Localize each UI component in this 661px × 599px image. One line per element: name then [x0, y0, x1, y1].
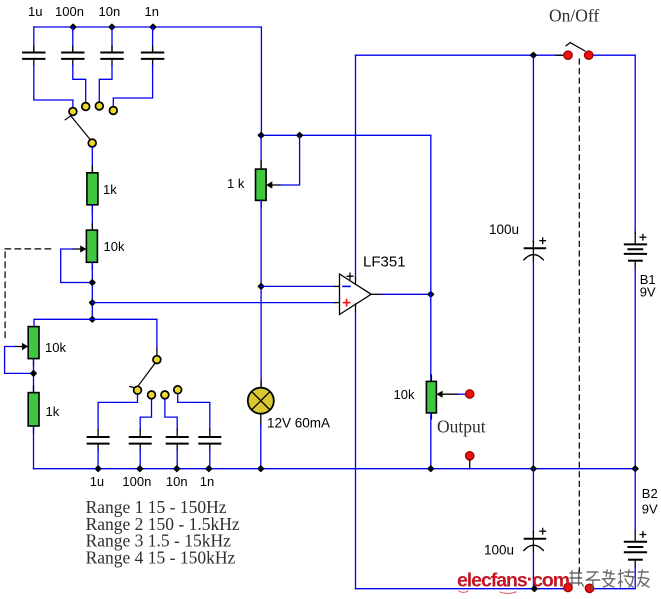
switch S1 contact 2 — [82, 103, 90, 111]
capacitor C 100n top lead — [72, 27, 74, 53]
switch S2 pivot — [153, 356, 161, 364]
wire bottom supply rail left part — [356, 588, 564, 590]
svg-text:1k: 1k — [46, 404, 60, 419]
capacitor C 1n (bottom group) — [199, 430, 220, 451]
capacitor C 1u (bottom group) — [88, 430, 109, 451]
svg-text:100n: 100n — [55, 4, 84, 19]
wire C10n bottom lead — [176, 449, 178, 469]
wire P4 bottom to rail — [430, 413, 432, 469]
wire lower branch horizontal — [34, 319, 157, 348]
wire B2 to bottom supply rail — [594, 566, 636, 589]
svg-text:elecfans·com: elecfans·com — [457, 569, 570, 592]
switch S1 arm — [65, 116, 91, 141]
svg-text:100u: 100u — [489, 222, 519, 237]
node pot wiper tap — [297, 133, 302, 138]
wire S2 contact1 to C 1u — [98, 394, 137, 430]
wire S2 contact4 to C 1n — [178, 394, 210, 430]
watermark underline swashes — [459, 591, 516, 594]
node C10n on rail — [174, 466, 179, 471]
ganged link dashed vertical — [4, 252, 6, 342]
node top rail junction 2 — [109, 24, 114, 29]
wire top rail — [34, 27, 262, 135]
svg-text:On/Off: On/Off — [549, 6, 599, 26]
wire C1n to contact 4 — [113, 64, 152, 106]
terminal output ground — [466, 452, 474, 460]
wire negative supply pin — [355, 312, 357, 589]
switch S3 contact left — [564, 51, 572, 59]
wire node to P3 top — [260, 135, 262, 169]
capacitor C 1n (top group) — [142, 46, 163, 65]
svg-text:10k: 10k — [104, 239, 125, 254]
svg-text:Output: Output — [437, 417, 486, 437]
node wiper junction — [90, 280, 95, 285]
battery B1 — [625, 232, 646, 268]
node output junction — [428, 292, 433, 297]
switch S3 contact right — [585, 51, 593, 59]
capacitor C 10n (bottom group) — [167, 430, 188, 451]
wire C1u to contact 1 — [34, 64, 73, 107]
capacitor C 1u top lead — [33, 27, 35, 53]
node C6 on bottom supply rail — [532, 586, 537, 591]
svg-text:10n: 10n — [166, 474, 188, 489]
capacitor C6 100u — [524, 528, 546, 552]
node P4 on rail — [428, 466, 433, 471]
wire to op-amp inverting input — [261, 285, 334, 287]
svg-text:1 k: 1 k — [227, 176, 245, 191]
wire C6 to bottom supply rail — [532, 552, 534, 589]
wire to op-amp noninverting input — [92, 302, 334, 304]
capacitor C 100n (bottom group) — [130, 430, 151, 451]
wire C5 to mid rail — [532, 261, 534, 468]
switch S2 contact 4 — [174, 386, 182, 394]
node lower branch — [90, 317, 95, 322]
switch S2 contact 2 — [148, 391, 156, 399]
svg-text:100u: 100u — [484, 543, 514, 558]
svg-text:1n: 1n — [145, 4, 159, 19]
wire feedback horizontal — [261, 134, 431, 136]
wire mid rail to C6 — [532, 469, 534, 533]
svg-text:LF351: LF351 — [363, 254, 406, 271]
wire P3 bottom to inverting node — [260, 200, 262, 387]
terminal output hot — [466, 390, 474, 398]
ganged link dashed horizontal — [5, 248, 54, 250]
node noninverting branch — [90, 300, 95, 305]
node inverting input branch — [258, 284, 263, 289]
potentiometer P3 1k — [256, 161, 281, 208]
wire C1n bottom lead — [209, 449, 211, 469]
wire C100n to contact 2 — [73, 64, 86, 103]
svg-text:1k: 1k — [103, 182, 117, 197]
capacitor C 1n top lead — [152, 27, 154, 53]
svg-text:10k: 10k — [394, 387, 415, 402]
potentiometer P4 10k — [426, 375, 458, 419]
svg-text:1n: 1n — [200, 474, 214, 489]
node C1n on rail — [206, 466, 211, 471]
svg-text:10n: 10n — [99, 4, 121, 19]
wire S3 to B1 — [594, 55, 636, 233]
resistor R2 1k — [28, 386, 39, 433]
wire C1u bottom lead — [97, 449, 99, 469]
switch S1 contact 3 — [95, 102, 103, 110]
wire lamp to bottom rail — [260, 425, 262, 469]
switch S2 contact 1 — [134, 386, 142, 394]
svg-text:Range 4 15 - 150kHz: Range 4 15 - 150kHz — [86, 547, 236, 567]
wire P3 wiper to tap — [280, 135, 300, 185]
resistor R1 1k — [87, 166, 98, 212]
switch S1 contact 1 — [69, 108, 77, 116]
wire rail to C5 — [532, 55, 534, 242]
svg-text:9V: 9V — [642, 502, 658, 517]
potentiometer P1 10k — [73, 224, 97, 269]
node top rail junction 3 — [150, 24, 155, 29]
capacitor C 1u (top group) — [23, 46, 44, 65]
capacitor C 100n (top group) — [62, 46, 83, 65]
switch S2 contact 3 — [161, 391, 169, 399]
node C5 top — [531, 53, 536, 58]
wire P2 wiper return — [5, 347, 34, 374]
capacitor C5 100u — [524, 238, 546, 261]
svg-text:1u: 1u — [28, 4, 42, 19]
wire S2 contact3 to C 10n — [165, 399, 177, 430]
switch S1 pivot — [88, 139, 96, 147]
wire top supply rail — [356, 54, 562, 56]
wire P1 wiper return — [61, 249, 93, 283]
wire to S2 pivot — [156, 349, 158, 357]
node C100n on rail — [137, 466, 142, 471]
ganged switch link dashed — [578, 59, 580, 578]
node C5 bottom on rail — [531, 466, 536, 471]
wire R1 to P1 — [91, 205, 93, 230]
switch S4 contact left — [564, 583, 572, 591]
watermark chinese characters — [570, 570, 649, 588]
switch S4 contact right — [585, 584, 593, 592]
svg-text:10k: 10k — [45, 340, 66, 355]
svg-text:12V 60mA: 12V 60mA — [267, 416, 330, 431]
capacitor C 10n top lead — [111, 27, 113, 53]
wire P1 bottom to node — [91, 262, 93, 319]
svg-text:B2: B2 — [642, 486, 658, 501]
switch S3 On/Off left contact lead — [556, 54, 564, 56]
node feedback left — [258, 133, 263, 138]
wire output rail vertical — [430, 135, 432, 381]
lamp LA1 — [248, 380, 274, 426]
svg-text:100n: 100n — [122, 474, 151, 489]
wire S2 contact2 to C 100n — [140, 399, 151, 430]
potentiometer P2 10k — [15, 327, 39, 366]
capacitor C 10n (top group) — [101, 46, 122, 65]
battery B2 — [625, 530, 646, 567]
switch S1 contact 4 — [109, 107, 117, 115]
wire bottom rail — [34, 468, 636, 470]
op-amp U1 LF351 — [335, 273, 381, 314]
wire positive supply pin — [355, 55, 357, 277]
svg-text:1u: 1u — [90, 474, 104, 489]
node lamp on rail — [258, 466, 263, 471]
wire terminal to rail — [469, 460, 471, 469]
wire P4 wiper to terminal — [458, 393, 465, 395]
node mid rail right — [633, 466, 638, 471]
wire R2 to bottom rail — [33, 426, 35, 469]
node C1u on rail — [95, 466, 100, 471]
wire S1 pivot to R1 — [91, 147, 93, 173]
svg-text:9V: 9V — [640, 285, 656, 300]
node P2 bottom junction — [31, 371, 36, 376]
switch S3 arm — [566, 43, 585, 51]
wire B1 to mid rail — [634, 267, 636, 469]
switch S2 arm — [130, 363, 156, 389]
node top rail junction 1 — [70, 24, 75, 29]
wire P2 bottom — [33, 359, 35, 393]
wire B2 top lead — [634, 469, 636, 531]
wire op-amp output — [380, 293, 431, 295]
wire C100n bottom lead — [139, 449, 141, 469]
wire C10n to contact 3 — [99, 64, 112, 102]
